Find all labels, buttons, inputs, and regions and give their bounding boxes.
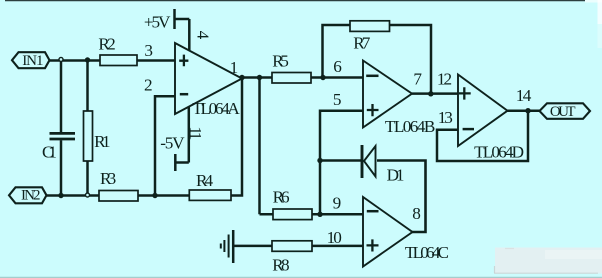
svg-text:12: 12: [437, 70, 452, 89]
svg-text:11: 11: [186, 126, 205, 140]
svg-text:R8: R8: [272, 256, 289, 275]
svg-text:5: 5: [333, 90, 342, 109]
svg-text:+5V: +5V: [144, 13, 171, 32]
svg-text:TL064B: TL064B: [385, 117, 435, 136]
svg-text:14: 14: [516, 86, 532, 105]
svg-text:8: 8: [412, 204, 421, 223]
svg-text:TL064A: TL064A: [192, 99, 240, 118]
svg-text:2: 2: [144, 76, 153, 95]
svg-text:1: 1: [230, 58, 239, 77]
svg-text:IN1: IN1: [22, 53, 43, 69]
svg-text:7: 7: [413, 70, 422, 89]
svg-text:OUT: OUT: [550, 104, 576, 120]
svg-text:R7: R7: [353, 34, 371, 53]
svg-text:R4: R4: [196, 171, 214, 190]
svg-text:6: 6: [333, 57, 342, 76]
svg-text:R2: R2: [98, 34, 115, 53]
svg-text:R5: R5: [272, 51, 289, 70]
svg-text:TL064D: TL064D: [474, 142, 524, 161]
svg-text:10: 10: [327, 228, 342, 247]
svg-text:C1: C1: [42, 142, 57, 161]
svg-text:D1: D1: [387, 165, 405, 184]
svg-text:-5V: -5V: [160, 133, 185, 152]
svg-text:13: 13: [438, 108, 453, 127]
svg-text:3: 3: [144, 41, 153, 60]
svg-text:4: 4: [193, 31, 212, 40]
svg-text:R3: R3: [100, 169, 116, 188]
svg-text:IN2: IN2: [21, 188, 41, 204]
svg-text:9: 9: [333, 193, 342, 212]
svg-text:R6: R6: [273, 187, 290, 206]
svg-text:TL064C: TL064C: [405, 243, 449, 262]
svg-text:R1: R1: [94, 132, 111, 151]
